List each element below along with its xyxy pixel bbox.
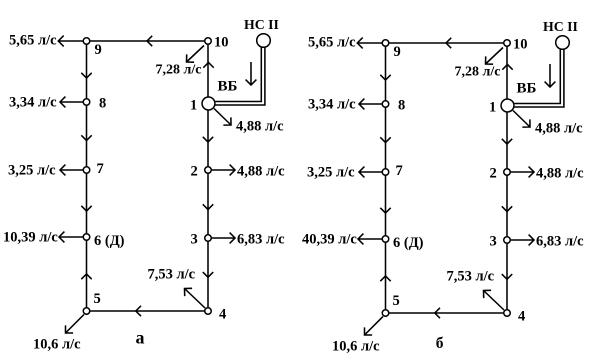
svg-text:10: 10: [513, 37, 528, 53]
svg-text:7,28 л/с: 7,28 л/с: [455, 65, 501, 80]
svg-text:9: 9: [394, 44, 401, 60]
svg-text:3: 3: [191, 232, 198, 248]
svg-text:НС II: НС II: [244, 17, 279, 32]
svg-text:1: 1: [489, 100, 496, 116]
svg-text:а: а: [136, 328, 145, 348]
svg-text:10: 10: [214, 35, 229, 51]
svg-text:10,6 л/с: 10,6 л/с: [332, 339, 380, 355]
svg-text:5,65 л/с: 5,65 л/с: [9, 33, 57, 49]
svg-text:б: б: [436, 335, 444, 352]
svg-text:8: 8: [398, 98, 405, 114]
svg-text:5: 5: [94, 291, 101, 307]
svg-text:7: 7: [97, 161, 104, 177]
svg-text:9: 9: [95, 42, 102, 58]
svg-text:4,88 л/с: 4,88 л/с: [236, 119, 284, 135]
svg-text:3,25 л/с: 3,25 л/с: [307, 165, 355, 181]
svg-text:4,88 л/с: 4,88 л/с: [536, 166, 584, 182]
svg-text:6,83 л/с: 6,83 л/с: [536, 234, 584, 250]
svg-text:8: 8: [99, 96, 106, 112]
svg-text:ВБ: ВБ: [517, 81, 537, 97]
svg-text:6,83 л/с: 6,83 л/с: [237, 232, 285, 248]
svg-text:40,39 л/с: 40,39 л/с: [302, 232, 357, 248]
svg-text:1: 1: [190, 98, 197, 114]
svg-text:10,39 л/с: 10,39 л/с: [3, 230, 58, 246]
svg-text:4: 4: [518, 309, 525, 325]
svg-text:3: 3: [490, 234, 497, 250]
svg-text:7: 7: [396, 163, 403, 179]
svg-text:7,53 л/с: 7,53 л/с: [148, 267, 196, 283]
svg-text:5,65 л/с: 5,65 л/с: [308, 35, 356, 51]
svg-text:7,53 л/с: 7,53 л/с: [447, 269, 495, 285]
svg-text:6 (Д): 6 (Д): [393, 235, 424, 251]
svg-text:10,6 л/с: 10,6 л/с: [33, 337, 81, 353]
svg-text:6 (Д): 6 (Д): [94, 233, 125, 249]
svg-text:7,28 л/с: 7,28 л/с: [156, 63, 202, 78]
svg-text:4,88 л/с: 4,88 л/с: [237, 164, 285, 180]
svg-text:2: 2: [191, 164, 198, 180]
svg-text:4: 4: [219, 307, 226, 323]
svg-text:4,88 л/с: 4,88 л/с: [535, 121, 583, 137]
svg-text:НС II: НС II: [543, 19, 578, 34]
svg-text:5: 5: [393, 293, 400, 309]
svg-text:2: 2: [490, 166, 497, 182]
svg-text:3,25 л/с: 3,25 л/с: [8, 163, 56, 179]
svg-text:ВБ: ВБ: [218, 79, 238, 95]
svg-text:3,34 л/с: 3,34 л/с: [9, 95, 57, 111]
svg-text:3,34 л/с: 3,34 л/с: [308, 97, 356, 113]
